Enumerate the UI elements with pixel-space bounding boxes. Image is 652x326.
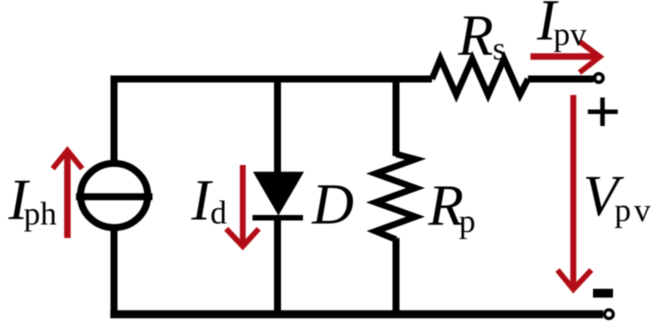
arrow for current I_d (red, down): [226, 165, 259, 246]
wire: Rp branch bottom lead: [393, 238, 400, 312]
resistor Rs zigzag: [432, 59, 528, 95]
terminal node + (top right), open circle: [595, 74, 603, 82]
resistor Rp zigzag: [376, 154, 416, 240]
svg-text:pv: pv: [554, 17, 588, 53]
current source U1 circle: [81, 163, 148, 227]
diode D triangle: [253, 172, 304, 216]
wire: bottom rail: [110, 310, 603, 318]
svg-text:D: D: [311, 172, 354, 237]
terminal node - (bottom right), open circle: [605, 310, 613, 318]
label I_ph: [8, 167, 58, 233]
label R_p: [427, 173, 475, 240]
label V_pv: [583, 163, 652, 229]
arrow for current I_ph (red, up): [53, 151, 82, 239]
label D: [311, 172, 354, 237]
svg-text:R: R: [457, 3, 493, 68]
svg-text:p: p: [459, 204, 476, 240]
wire: diode branch top lead: [274, 76, 281, 179]
current source bar: [76, 193, 153, 200]
label R_s: [457, 3, 505, 68]
label I_pv: [536, 0, 587, 53]
arrow for voltage V_pv (red, down): [558, 95, 592, 289]
svg-text:d: d: [210, 196, 227, 232]
minus sign at - terminal: [593, 289, 613, 298]
plus sign at + terminal: [588, 98, 618, 127]
svg-text:ph: ph: [24, 197, 58, 233]
svg-text:s: s: [493, 32, 506, 68]
wire: top rail from left corner to Rs, with left branch down to current source: [114, 79, 432, 161]
diode D cathode bar: [253, 215, 304, 221]
wire: Rp branch top lead: [393, 76, 400, 157]
svg-text:pv: pv: [615, 193, 652, 229]
arrow for current I_pv (red, right): [531, 42, 600, 73]
wire: diode branch bottom lead: [274, 217, 281, 312]
label I_d: [190, 168, 227, 233]
wire: top rail right segment from Rs to + terminal: [528, 76, 594, 83]
wire: current source bottom lead: [111, 226, 118, 312]
